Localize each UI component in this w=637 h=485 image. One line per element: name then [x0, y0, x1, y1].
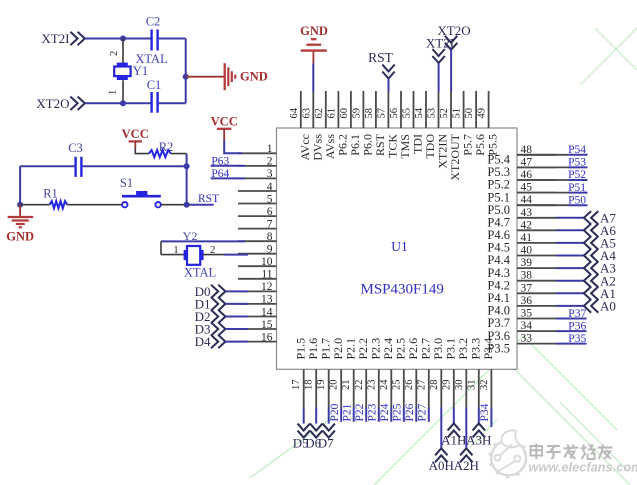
node junction S1/RST	[184, 202, 190, 208]
svg-text:25: 25	[391, 380, 402, 391]
svg-text:49: 49	[477, 108, 488, 119]
port A2 chevron	[584, 274, 598, 287]
svg-text:21: 21	[341, 380, 352, 391]
port D4 chevron	[211, 335, 225, 348]
svg-text:P53: P53	[568, 157, 586, 169]
svg-text:8: 8	[267, 231, 273, 243]
wire net P51	[517, 192, 569, 194]
pin 42 stub wire	[517, 229, 556, 231]
svg-text:XT2O: XT2O	[36, 96, 69, 111]
wire pin 28 to port A0H	[440, 408, 442, 449]
pin 41 stub wire	[517, 242, 556, 244]
watermark text dianzifashaoyou	[531, 444, 613, 460]
svg-text:5: 5	[267, 193, 273, 205]
pin 51 stub wire	[463, 91, 465, 128]
svg-text:12: 12	[261, 281, 273, 293]
svg-text:34: 34	[521, 320, 533, 332]
svg-text:2: 2	[109, 51, 120, 56]
svg-text:50: 50	[464, 108, 475, 119]
pin 3 stub wire	[238, 177, 277, 179]
pin 21 stub wire	[353, 369, 355, 407]
pin 52 stub wire	[450, 91, 452, 128]
svg-text:P36: P36	[568, 321, 586, 333]
pin 2 stub wire	[238, 165, 277, 167]
resistor R2	[149, 150, 171, 157]
wire Y2 pin2 lead	[203, 254, 224, 256]
pin 43 stub wire	[517, 217, 556, 219]
wire net P37	[556, 318, 587, 320]
svg-text:51: 51	[452, 108, 463, 119]
pin 61 stub wire	[337, 91, 339, 128]
port A5 chevron	[584, 236, 598, 249]
port D0 chevron	[211, 285, 225, 298]
wire net P35	[556, 343, 587, 345]
pin 59 stub wire	[362, 91, 364, 128]
wire net P20	[340, 408, 342, 422]
pin 6 stub wire	[238, 215, 277, 217]
svg-text:MSP430F149: MSP430F149	[361, 281, 444, 297]
svg-text:RST: RST	[368, 50, 394, 65]
svg-text:57: 57	[376, 108, 387, 119]
svg-text:P21: P21	[341, 403, 353, 421]
pin 50 stub wire	[475, 91, 477, 128]
wire left to C3	[20, 165, 74, 167]
svg-text:42: 42	[521, 219, 533, 231]
wire net P24	[390, 408, 392, 422]
port A1 chevron	[584, 287, 598, 300]
pin 44 stub wire	[517, 204, 556, 206]
wire to port A7	[556, 217, 584, 219]
svg-text:P37: P37	[568, 308, 586, 320]
wire VCC to R2	[135, 149, 149, 154]
wire pin 8 net (Y2 top)	[161, 240, 245, 242]
svg-text:64: 64	[289, 107, 300, 118]
op-amp U1 MSP430F149 IC body	[277, 128, 518, 369]
pin 53 stub wire	[438, 91, 440, 128]
svg-text:C2: C2	[146, 14, 161, 28]
wire to port A2	[556, 280, 584, 282]
pin 23 stub wire	[378, 369, 380, 407]
wire pin 19 to port D7	[328, 408, 330, 424]
svg-text:20: 20	[329, 380, 340, 391]
svg-text:6: 6	[267, 206, 273, 218]
pin 5 stub wire	[238, 203, 277, 205]
wire XT2O port to pin 52	[450, 50, 452, 92]
svg-text:14: 14	[261, 306, 273, 318]
svg-text:36: 36	[521, 295, 533, 307]
svg-text:P35: P35	[568, 333, 586, 345]
port XT2O (top)	[437, 23, 470, 50]
wire net P23	[378, 408, 380, 422]
svg-text:28: 28	[429, 380, 440, 391]
pin 18 stub wire	[315, 369, 317, 407]
pin 9 stub wire	[238, 253, 277, 255]
svg-text:P34: P34	[479, 403, 491, 421]
port D7 chevron	[323, 424, 335, 438]
node junction XT2O/C1/Y1	[120, 100, 126, 106]
svg-text:33: 33	[521, 333, 533, 345]
svg-text:61: 61	[326, 108, 337, 119]
pin 22 stub wire	[365, 369, 367, 407]
switch S1	[122, 191, 161, 207]
svg-text:P24: P24	[379, 403, 391, 421]
wire C1 to corner	[159, 102, 186, 104]
wire pin 31 to port A3H	[478, 408, 480, 424]
svg-text:GND: GND	[6, 230, 34, 244]
pin 12 stub wire	[238, 290, 277, 292]
svg-text:35: 35	[521, 308, 533, 320]
wire D0 to pin 12	[225, 290, 248, 292]
svg-text:41: 41	[521, 232, 533, 244]
pin 40 stub wire	[517, 255, 556, 257]
wire XT2O to node	[85, 102, 151, 104]
svg-text:P51: P51	[568, 182, 586, 194]
port D6 chevron	[310, 424, 322, 438]
wire net P36	[556, 330, 587, 332]
wire gnd to pin 63	[312, 64, 314, 92]
port D3 chevron	[211, 322, 225, 335]
svg-text:29: 29	[441, 380, 452, 391]
svg-text:C3: C3	[68, 141, 83, 155]
pin 62 stub wire	[325, 91, 327, 128]
port D5 chevron	[298, 424, 310, 438]
wire net P25	[403, 408, 405, 422]
pin 32 stub wire	[490, 369, 492, 407]
pin 57 stub wire	[387, 91, 389, 128]
svg-text:9: 9	[267, 244, 273, 256]
wire pin 17 to port D5	[303, 408, 305, 424]
pin 64 stub wire	[300, 91, 302, 128]
svg-text:2: 2	[267, 156, 273, 168]
wire to ground (maroon)	[186, 76, 224, 78]
svg-text:31: 31	[466, 380, 477, 391]
svg-text:www.elecfans.com: www.elecfans.com	[529, 460, 637, 475]
svg-text:XTAL: XTAL	[135, 52, 167, 66]
crystal Y1	[114, 63, 130, 80]
capacitor C2	[152, 30, 158, 51]
wire XT2I to node	[85, 38, 151, 40]
port A6 chevron	[584, 224, 598, 237]
port XT2I (top)	[426, 35, 454, 63]
pin 27 stub wire	[428, 369, 430, 407]
svg-text:3: 3	[267, 168, 273, 180]
wire RST port to pin 57	[388, 79, 390, 92]
pin 60 stub wire	[350, 91, 352, 128]
svg-text:4: 4	[267, 181, 273, 193]
capacitor C3	[76, 157, 82, 177]
port A2H chevron	[460, 448, 472, 462]
svg-text:56: 56	[389, 108, 400, 119]
resistor R1	[50, 201, 68, 208]
svg-text:39: 39	[521, 257, 533, 269]
pin 36 stub wire	[517, 305, 556, 307]
pin 29 stub wire	[453, 369, 455, 407]
svg-text:GND: GND	[240, 70, 268, 84]
svg-text:U1: U1	[391, 239, 408, 254]
pin 7 stub wire	[238, 228, 277, 230]
wire R2 to corner	[171, 153, 187, 155]
svg-text:R1: R1	[43, 187, 58, 201]
wire pin 18 to port D6	[315, 408, 317, 424]
wire net P26	[415, 408, 417, 422]
pin 28 stub wire	[440, 369, 442, 407]
svg-text:P22: P22	[354, 403, 366, 421]
decorative gear logo (watermark)	[489, 431, 526, 479]
wire net P50	[517, 204, 569, 206]
wire Y2 pin1 lead	[161, 254, 185, 256]
svg-text:P52: P52	[568, 169, 586, 181]
node junction gnd branch	[183, 74, 189, 80]
port A1H chevron	[448, 423, 460, 437]
wire net P21	[353, 408, 355, 422]
pin 15 stub wire	[238, 328, 277, 330]
pin 1 stub wire	[238, 152, 277, 154]
wire net P63 (pin 2)	[211, 165, 245, 167]
node junction R2/C3	[184, 163, 190, 169]
svg-text:59: 59	[351, 108, 362, 119]
wire RST net stub	[187, 204, 214, 206]
svg-text:A0H: A0H	[429, 458, 454, 473]
svg-text:19: 19	[316, 380, 327, 391]
svg-text:P50: P50	[568, 194, 586, 206]
crystal Y2	[184, 246, 204, 265]
pin 35 stub wire	[517, 318, 556, 320]
pin 47 stub wire	[517, 166, 556, 168]
node junction C3/R1/GND	[17, 202, 23, 208]
wire net P64 (pin 3)	[211, 177, 245, 179]
svg-text:P25: P25	[392, 403, 404, 421]
svg-text:23: 23	[366, 380, 377, 391]
pin 24 stub wire	[390, 369, 392, 407]
pin 46 stub wire	[517, 179, 556, 181]
svg-text:A1H: A1H	[441, 433, 466, 448]
port XT2O (left)	[36, 96, 85, 111]
gnd power port at pin 63	[300, 24, 328, 63]
svg-text:1: 1	[267, 143, 273, 155]
wire net P52 blue segment	[569, 179, 588, 181]
wire junction to R1	[20, 204, 49, 206]
wire net P54	[517, 154, 569, 156]
svg-text:GND: GND	[300, 24, 328, 38]
pin 49 stub wire	[488, 91, 490, 128]
wire net P52	[517, 179, 569, 181]
wire XT2I port to pin 53	[438, 63, 440, 91]
pin 17 stub wire	[303, 369, 305, 407]
svg-text:13: 13	[261, 294, 273, 306]
svg-text:VCC: VCC	[211, 114, 238, 128]
svg-text:15: 15	[261, 319, 273, 331]
pin 25 stub wire	[403, 369, 405, 407]
port D2 chevron	[211, 310, 225, 323]
port D1 chevron	[211, 297, 225, 310]
ground symbol (rotated)	[225, 63, 236, 90]
svg-text:D4: D4	[195, 334, 211, 349]
port A0H chevron	[435, 448, 447, 462]
wire S1 to junction	[161, 204, 187, 206]
svg-text:55: 55	[402, 108, 413, 119]
wire Y2 left vertical	[160, 241, 162, 254]
wire R1 to S1	[67, 204, 122, 206]
svg-text:32: 32	[479, 380, 490, 391]
svg-text:52: 52	[439, 108, 450, 119]
pin 20 stub wire	[340, 369, 342, 407]
pin 55 stub wire	[413, 91, 415, 128]
pin 34 stub wire	[517, 330, 556, 332]
svg-text:7: 7	[267, 218, 273, 230]
wire net P34 (pin 32)	[490, 408, 492, 428]
svg-text:40: 40	[521, 245, 533, 257]
svg-text:30: 30	[454, 380, 465, 391]
pin 63 stub wire	[312, 91, 314, 128]
svg-text:1: 1	[108, 90, 119, 95]
svg-text:54: 54	[414, 107, 425, 118]
wire to port A1	[556, 292, 584, 294]
pin 39 stub wire	[517, 267, 556, 269]
svg-text:P20: P20	[329, 403, 341, 421]
wire pin 30 to port A2H	[465, 408, 467, 449]
wire right vertical of crystal loop	[185, 39, 187, 104]
wire Y1 bottom lead	[122, 80, 124, 103]
svg-text:16: 16	[261, 331, 273, 343]
port A0 chevron	[584, 299, 598, 312]
wire net P51 blue segment	[569, 192, 588, 194]
svg-text:P54: P54	[568, 144, 586, 156]
ground symbol (left)	[8, 205, 34, 228]
svg-text:53: 53	[427, 108, 438, 119]
pin 4 stub wire	[238, 190, 277, 192]
wire Y2 to pin 9	[224, 254, 248, 256]
svg-text:A2H: A2H	[454, 458, 479, 473]
svg-text:24: 24	[379, 379, 390, 390]
pin 31 stub wire	[478, 369, 480, 407]
svg-text:63: 63	[301, 108, 312, 119]
pin 26 stub wire	[415, 369, 417, 407]
wire Y1 top lead	[122, 39, 124, 64]
wire left vertical down to R1	[19, 166, 21, 205]
svg-text:P27: P27	[417, 403, 429, 421]
wire VCC to pin 1	[224, 140, 242, 153]
svg-text:38: 38	[521, 270, 533, 282]
svg-text:18: 18	[304, 380, 315, 391]
svg-text:RST: RST	[198, 193, 219, 205]
wire D2 to pin 14	[225, 316, 248, 318]
wire C3 node down to RST node	[186, 166, 188, 204]
pin 11 stub wire	[238, 278, 277, 280]
pin 13 stub wire	[238, 303, 277, 305]
svg-text:P3.5: P3.5	[487, 341, 510, 355]
port A4 chevron	[584, 249, 598, 262]
power VCC (R2)	[122, 127, 149, 149]
svg-text:VCC: VCC	[122, 127, 149, 141]
pin 56 stub wire	[400, 91, 402, 128]
svg-text:D7: D7	[318, 435, 334, 450]
wire C3 to junction	[83, 165, 187, 167]
pin 14 stub wire	[238, 316, 277, 318]
pin 58 stub wire	[375, 91, 377, 128]
port A3H chevron	[473, 423, 485, 437]
svg-text:60: 60	[339, 108, 350, 119]
svg-text:10: 10	[261, 256, 273, 268]
pin 38 stub wire	[517, 280, 556, 282]
svg-text:A0: A0	[600, 299, 616, 314]
pin 8 stub wire	[238, 240, 277, 242]
svg-text:P23: P23	[367, 403, 379, 421]
wire to port A0	[556, 305, 584, 307]
pin 37 stub wire	[517, 292, 556, 294]
wire net P54 blue segment	[569, 154, 588, 156]
wire to port A3	[556, 267, 584, 269]
svg-text:22: 22	[354, 380, 365, 391]
wire C2 to corner	[159, 38, 186, 40]
svg-text:37: 37	[521, 282, 533, 294]
svg-text:17: 17	[291, 380, 302, 391]
svg-text:S1: S1	[120, 176, 133, 190]
wire net P50 blue segment	[569, 204, 588, 206]
port XT2I (left)	[41, 31, 84, 46]
wire net P22	[365, 408, 367, 422]
wire D3 to pin 15	[225, 328, 248, 330]
capacitor C1	[152, 92, 158, 113]
wire to port A5	[556, 242, 584, 244]
watermark diagonal lines	[250, 28, 637, 485]
pin 10 stub wire	[238, 265, 277, 267]
svg-text:58: 58	[364, 108, 375, 119]
pin 19 stub wire	[328, 369, 330, 407]
svg-text:27: 27	[416, 380, 427, 391]
svg-text:Y1: Y1	[133, 64, 148, 78]
pin 33 stub wire	[517, 343, 556, 345]
node junction XT2I/C2/Y1	[120, 36, 126, 42]
pin 54 stub wire	[425, 91, 427, 128]
port A3 chevron	[584, 261, 598, 274]
wire to port A6	[556, 229, 584, 231]
wire D4 to pin 16	[225, 341, 248, 343]
port A7 chevron	[584, 211, 598, 224]
svg-text:26: 26	[404, 380, 415, 391]
pin 16 stub wire	[238, 341, 277, 343]
wire D1 to pin 13	[225, 303, 248, 305]
svg-text:62: 62	[314, 108, 325, 119]
wire to port A4	[556, 255, 584, 257]
wire net P53 blue segment	[569, 166, 588, 168]
wire net P53	[517, 166, 569, 168]
svg-text:11: 11	[261, 269, 272, 281]
port RST (top)	[368, 50, 395, 79]
svg-text:XTAL: XTAL	[184, 265, 216, 279]
svg-text:XT2O: XT2O	[437, 23, 470, 38]
pin 45 stub wire	[517, 192, 556, 194]
svg-text:C1: C1	[147, 78, 162, 92]
pin 48 stub wire	[517, 154, 556, 156]
svg-text:A3H: A3H	[466, 433, 491, 448]
svg-text:XT2I: XT2I	[41, 31, 69, 46]
power VCC (pin 1)	[211, 114, 238, 140]
pin 30 stub wire	[465, 369, 467, 407]
svg-text:P26: P26	[404, 403, 416, 421]
wire corner down to C3 node	[186, 154, 188, 167]
wire net P27	[428, 408, 430, 422]
wire pin 29 to port A1H	[453, 408, 455, 424]
svg-text:43: 43	[521, 207, 533, 219]
